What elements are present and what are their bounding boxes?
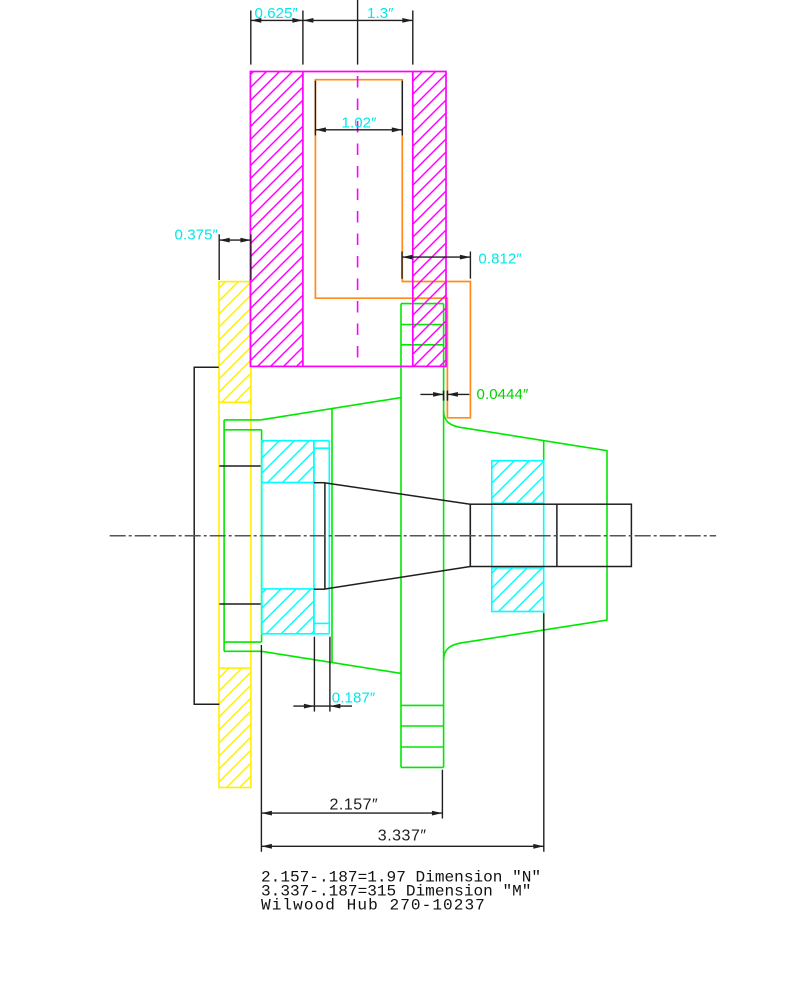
svg-text:Wilwood Hub 270-10237: Wilwood Hub 270-10237: [261, 897, 486, 915]
svg-text:0.375″: 0.375″: [175, 226, 219, 243]
svg-text:0.0444″: 0.0444″: [477, 386, 529, 403]
svg-text:1.02″: 1.02″: [342, 114, 378, 131]
svg-text:2.157″: 2.157″: [330, 796, 379, 813]
svg-text:0.625″: 0.625″: [255, 5, 299, 22]
svg-text:0.812″: 0.812″: [478, 250, 522, 267]
svg-text:0.187″: 0.187″: [332, 689, 376, 706]
svg-text:1.3″: 1.3″: [367, 5, 394, 22]
svg-text:3.337″: 3.337″: [378, 828, 427, 845]
